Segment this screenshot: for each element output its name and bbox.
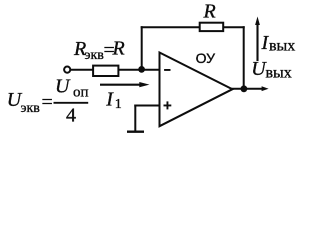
op-amp U1 triangle [160,53,233,127]
op-amp minus sign [164,69,170,71]
svg-text:1: 1 [115,97,122,112]
svg-text:I: I [105,88,114,110]
resistor R feedback box [200,23,224,31]
fraction bar [54,102,89,104]
op-amp plus sign [164,105,172,107]
input terminal circle [64,67,70,73]
wire feedback down to output node [243,26,245,89]
output node dot [241,85,248,92]
svg-text:R: R [203,0,216,22]
arrow Iвых head [255,17,260,26]
arrow head Uвых output [262,86,269,91]
svg-text:4: 4 [66,104,76,126]
wire top feedback right segment [223,26,245,28]
arrow Iвых shaft [256,23,258,61]
wire non-inverting input to ground corner [134,105,158,107]
resistor Rэкв box [93,66,118,76]
wire Rэкв to op-amp inverting input [118,69,159,71]
svg-text:оп: оп [73,85,89,101]
arrow I1 shaft [100,84,142,86]
svg-text:экв: экв [21,101,41,116]
junction node dot [138,66,145,73]
wire ground vertical [134,105,136,132]
svg-text:R: R [112,38,125,60]
wire top feedback left segment [141,26,200,28]
svg-text:вых: вых [269,37,295,54]
svg-text:U: U [55,76,71,98]
wire input terminal to Rэкв [70,69,93,71]
svg-text:=: = [42,91,53,113]
ground bar [127,131,144,133]
arrow I1 head [139,82,149,87]
svg-text:вых: вых [266,65,292,82]
svg-text:экв: экв [85,48,105,63]
svg-text:ОУ: ОУ [196,50,216,66]
wire junction up to feedback [141,26,143,71]
wire op-amp output [231,88,263,90]
